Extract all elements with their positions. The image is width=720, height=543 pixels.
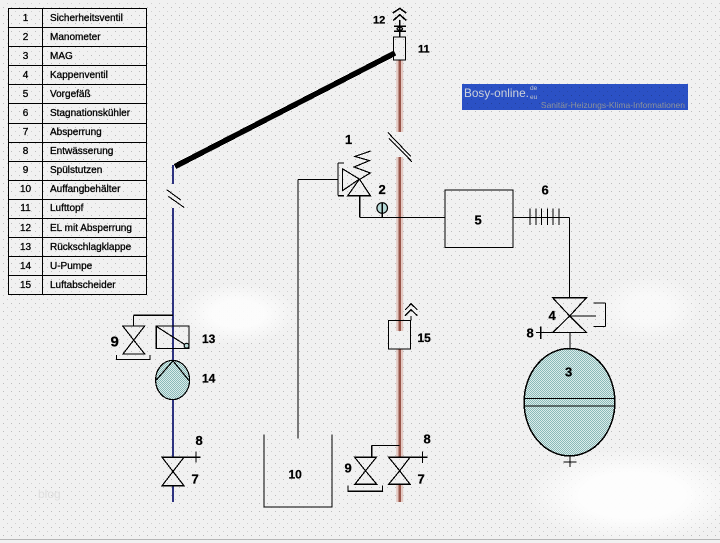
flush valve 9 (red side) — [348, 445, 400, 491]
svg-text:6: 6 — [542, 183, 549, 198]
blue pipe — [172, 165, 174, 502]
flush valve 9 (blue side) — [117, 315, 173, 359]
wire cap valve to MAG — [569, 332, 571, 349]
air pot 11 — [394, 37, 406, 60]
Bosy-online logo — [462, 84, 688, 110]
pre-vessel 5 — [445, 190, 513, 248]
MAG vessel 3 — [524, 349, 615, 456]
white patches — [525, 448, 720, 543]
svg-text:9: 9 — [111, 334, 119, 351]
pump 14 — [156, 360, 190, 399]
svg-text:1: 1 — [345, 132, 352, 147]
cap valve 4 — [553, 298, 606, 333]
stagnation cooler 6 — [530, 209, 559, 226]
container 10 — [264, 435, 332, 508]
MAG bottom drain — [564, 456, 577, 467]
svg-text:8: 8 — [424, 432, 431, 447]
check valve 13 — [156, 326, 189, 348]
svg-text:5: 5 — [475, 213, 482, 228]
wire vessel to cooler — [513, 217, 570, 219]
drain 8 (blue side) — [184, 452, 201, 463]
svg-text:11: 11 — [418, 44, 430, 56]
red pipe halo — [396, 60, 403, 502]
discharge wire to container — [297, 180, 299, 439]
manometer 2 — [377, 203, 388, 218]
thick black pipe (filling line) — [175, 53, 395, 167]
svg-text:2: 2 — [379, 182, 386, 197]
vent chevrons on separator — [405, 304, 417, 321]
bottom edge line — [0, 539, 720, 541]
svg-text:7: 7 — [192, 472, 199, 487]
svg-text:9: 9 — [345, 461, 352, 476]
svg-text:12: 12 — [373, 15, 385, 27]
safety valve outlet wire — [359, 196, 361, 218]
red pipe break symbol — [388, 133, 412, 162]
svg-text:14: 14 — [202, 372, 216, 386]
shutoff valve 7 (blue side) — [162, 457, 184, 486]
legend table — [8, 8, 147, 295]
svg-text:8: 8 — [527, 326, 534, 341]
drain at cap valve 8 — [536, 327, 553, 340]
expansion wire to vessel — [360, 217, 445, 219]
svg-text:4: 4 — [549, 308, 557, 323]
red pipe — [398, 60, 401, 502]
faint watermark — [38, 487, 61, 501]
svg-text:10: 10 — [289, 468, 303, 482]
svg-text:3: 3 — [565, 365, 572, 380]
wire down to cap valve — [569, 218, 571, 299]
blue pipe break symbol — [167, 190, 185, 208]
drain 8 (red side) — [410, 452, 427, 463]
svg-text:15: 15 — [418, 331, 432, 345]
safety valve 1 — [298, 151, 371, 196]
vent chevrons 12 — [393, 8, 407, 20]
air separator 15 — [389, 321, 411, 350]
vent symbol on air pot — [394, 20, 406, 37]
svg-text:7: 7 — [418, 472, 425, 487]
number labels — [111, 15, 573, 487]
svg-text:8: 8 — [196, 433, 203, 448]
shutoff valve 7 (red side) — [389, 457, 411, 484]
svg-text:13: 13 — [202, 332, 216, 346]
